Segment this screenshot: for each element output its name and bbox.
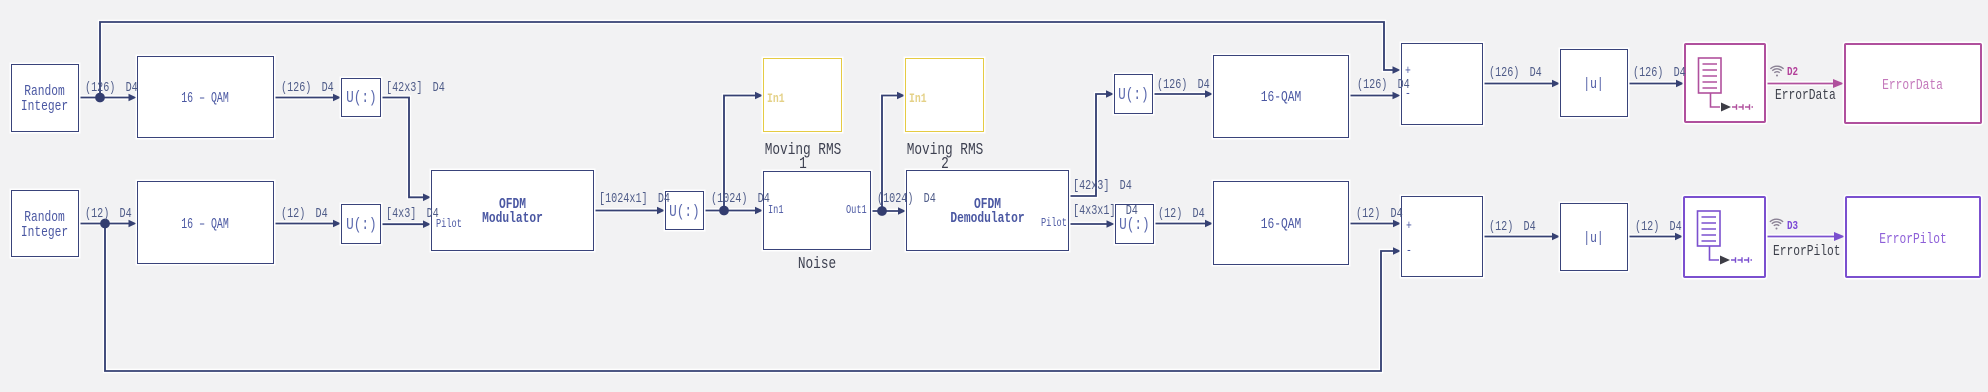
block U2 reshape [341,204,381,244]
wire Noise Out1 to OFDM Demodulator In1 [871,207,906,215]
label signal [42x3] D4 at U1 output [386,82,445,96]
icon Record2 document and scope glyph [1698,211,1753,265]
icon wireless logging badge D3 [1770,219,1783,229]
wire Sum1 to Abs1 [1483,80,1560,88]
block Sum1 subtract [1401,43,1484,125]
block ErrorData outport [1844,43,1982,124]
block Random Integer 1 [11,64,79,132]
block 16-QAM demodulator 2 [1213,181,1349,265]
port label plus on Sum1 [1405,65,1411,77]
label signal [42x3] D4 at Demodulator Out1 [1073,180,1132,194]
label signal (12) D4 at U5 output [1158,208,1205,222]
port label In1 on Noise [768,205,784,217]
wire Random Integer2 to 16-QAM2 [79,220,137,228]
block 16-QAM demodulator 1 [1213,55,1349,139]
label signal (126) D4 at 16-QAM1 output [281,82,334,96]
port label Pilot on OFDM Demodulator [1041,218,1067,230]
wire Abs1 to Record1 [1628,80,1684,88]
wire J4 up to Moving RMS2 In1 [882,92,905,211]
port label In1 on Moving RMS 1 [767,92,785,105]
port label minus on Sum1 [1405,88,1411,100]
wire bottom feedback J2 to Sum2 minus input [105,224,1401,372]
wire U5 reshape to 16-QAM4 [1154,220,1213,228]
block U4 reshape [1114,74,1153,114]
label signal [1024x1] D4 at OFDM Modulator output [599,193,670,207]
block U1 reshape [341,78,381,117]
node J3 junction after U3 [719,206,729,216]
wire 16-QAM1 to U1 reshape [274,94,341,102]
node J1 junction on Random Integer1 output [95,93,105,103]
wire 16-QAM4 to Sum2 plus input [1349,220,1401,228]
wire U3 reshape to Noise In1 [704,207,763,215]
wire 16-QAM2 to U2 reshape [274,220,341,228]
block U5 reshape [1115,204,1155,244]
icon wireless logging badge D2 [1770,66,1783,76]
wire Record2 to ErrorPilot outport [1766,232,1846,241]
block Moving RMS 2 [905,58,984,132]
block OFDM Modulator [431,170,594,251]
block Random Integer 2 [11,190,79,257]
wire Record1 to ErrorData outport [1766,79,1844,88]
label logging badge D3 [1787,220,1798,234]
block Noise [763,171,871,250]
wire U4 reshape to 16-QAM3 [1153,90,1213,98]
annotation Moving RMS 1 name [720,144,885,171]
wire OFDM Modulator to U3 reshape [594,207,665,215]
block Record1 [1684,43,1766,123]
port label minus on Sum2 [1406,245,1412,257]
block 16-QAM modulator 2 [137,181,275,264]
label signal (126) D4 at Sum1 output [1489,67,1542,81]
block U3 reshape [665,191,704,230]
port label plus on Sum2 [1406,220,1412,232]
label signal (12) D4 at Random Integer2 output [85,208,132,222]
label signal (12) D4 at Sum2 output [1489,221,1536,235]
wire U2 reshape to OFDM Modulator Pilot input [381,220,432,228]
wire Abs2 to Record2 [1628,233,1683,241]
label signal (126) D4 at 16-QAM3 output [1357,79,1410,93]
wire OFDM Demodulator Pilot to U5 reshape [1069,220,1115,228]
wire J3 up to Moving RMS1 In1 [724,92,763,211]
label signal [4x3x1] D4 at Demodulator Pilot [1073,205,1138,219]
wire Sum2 to Abs2 [1483,233,1560,241]
label signal [4x3] D4 at U2 output [386,208,439,222]
node J2 junction on Random Integer2 output [100,219,110,229]
annotation ErrorPilot signal name [1773,244,1841,259]
icon Record1 document and scope glyph [1699,58,1754,112]
block Moving RMS 1 [763,58,842,132]
wire top feedback J1 to Sum1 plus input [100,22,1401,98]
label signal (1024) D4 after Noise [877,193,936,207]
block OFDM Demodulator [906,170,1069,251]
block Abs1 [1560,49,1628,117]
label signal (126) D4 at U4 output [1157,79,1210,93]
label signal (12) D4 at 16-QAM4 output [1356,208,1403,222]
port label Pilot on OFDM Modulator [436,219,462,231]
block Abs2 [1560,203,1628,271]
wire OFDM Demodulator Out1 to U4 reshape [1069,90,1114,196]
port label In1 on Moving RMS 2 [909,92,927,105]
block ErrorPilot outport [1845,196,1981,278]
label signal (126) D4 at Abs1 output [1633,67,1686,81]
annotation Moving RMS 2 name [862,144,1027,171]
label signal (126) D4 at Random Integer1 output [85,82,138,96]
label signal (1024) D4 after U3 [711,193,770,207]
block Sum2 subtract [1401,196,1483,277]
wire 16-QAM3 to Sum1 minus input [1349,92,1401,100]
wire U1 reshape to OFDM Modulator In1 [381,98,431,202]
annotation ErrorData signal name [1775,88,1836,103]
block 16-QAM modulator 1 [137,56,275,138]
annotation Noise name [735,258,900,272]
port label Out1 on Noise [846,205,867,217]
label signal (12) D4 at Abs2 output [1635,221,1682,235]
block Record2 [1683,196,1766,278]
label signal (12) D4 at 16-QAM2 output [281,208,328,222]
node J4 junction after Noise Out1 [877,206,887,216]
label logging badge D2 [1787,66,1798,80]
wire Random Integer1 to 16-QAM1 [79,94,137,102]
